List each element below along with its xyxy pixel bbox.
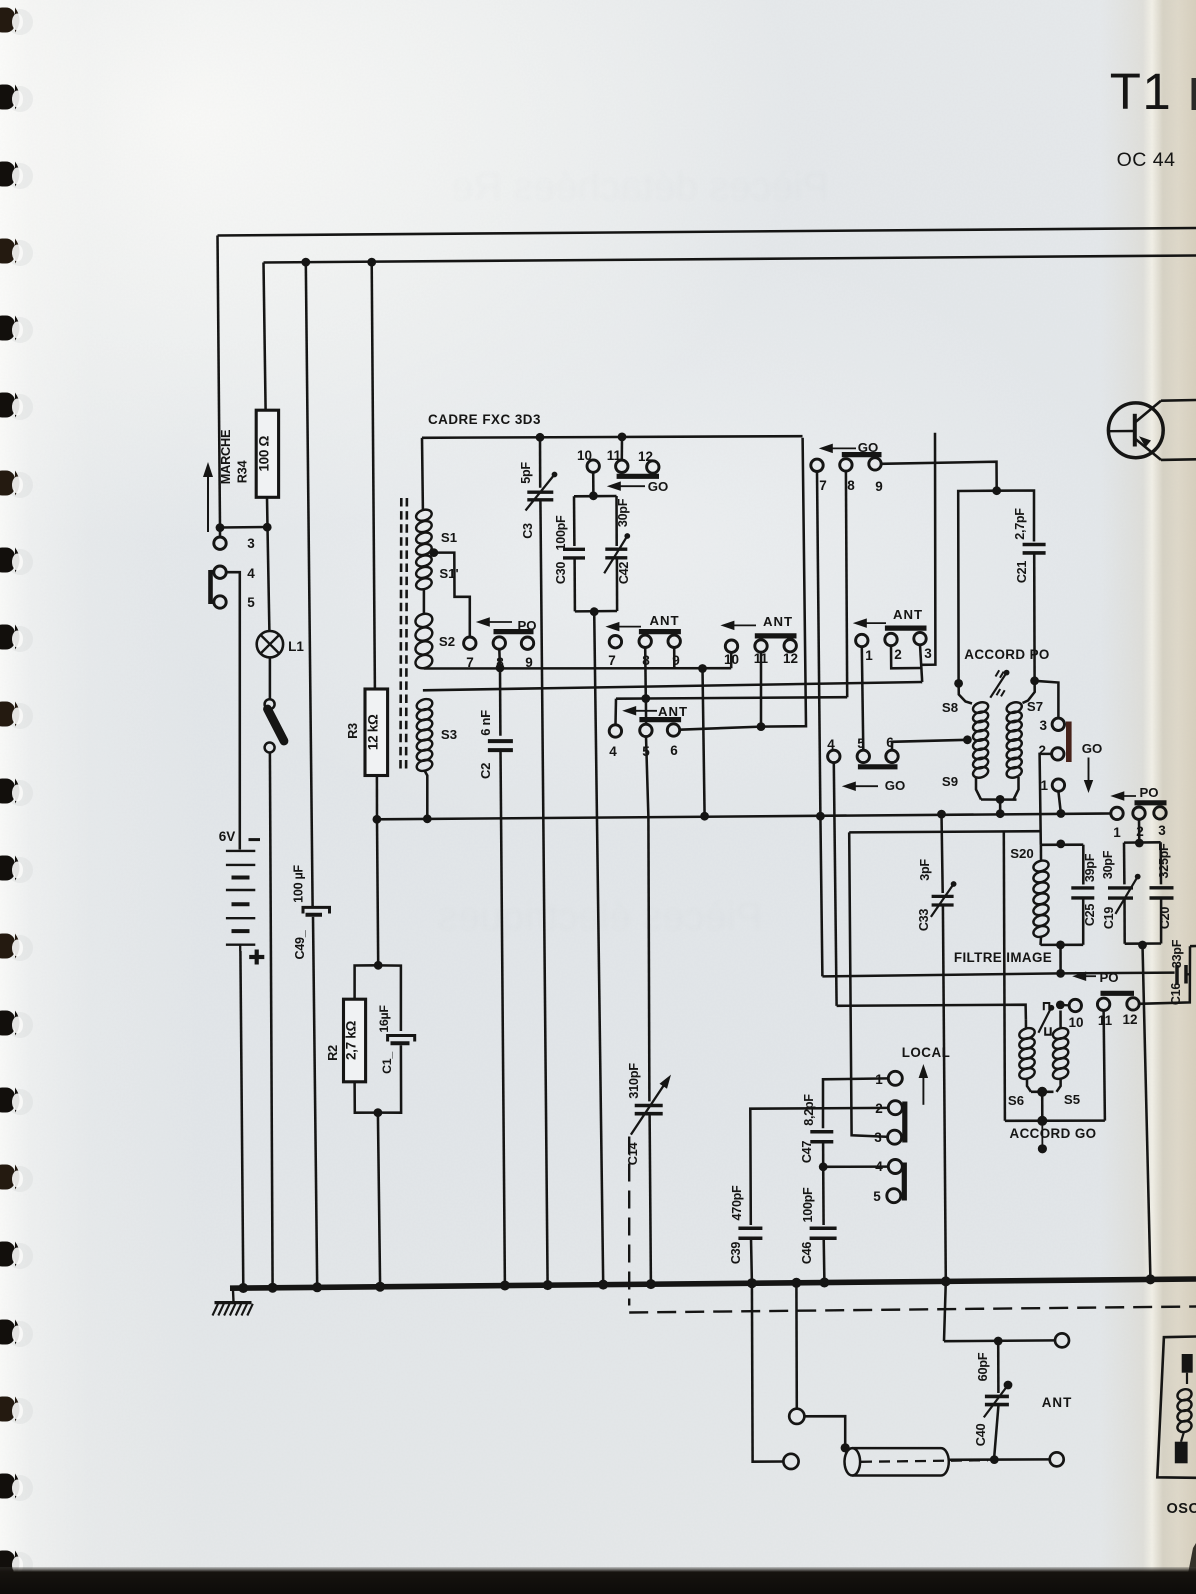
svg-text:9: 9 xyxy=(875,479,883,494)
binding hole xyxy=(7,1012,33,1038)
wire C25 lower xyxy=(1082,898,1085,945)
node filtre rail xyxy=(1056,969,1065,978)
binding hole xyxy=(7,1243,33,1269)
wire bus stub to terminal xyxy=(795,1283,798,1409)
contact 4 jack xyxy=(214,566,226,578)
svg-text:2,7 kΩ: 2,7 kΩ xyxy=(344,1021,359,1061)
svg-text:ANT: ANT xyxy=(649,613,679,628)
wire S3 bottom to rail xyxy=(425,771,428,819)
wire C46 to ground bus xyxy=(822,1238,825,1281)
wire C2 to ground bus xyxy=(501,750,505,1285)
wire to earth terminal xyxy=(753,1458,784,1462)
node ground bus junction xyxy=(312,1282,322,1292)
node accord PO bottom/rail xyxy=(996,809,1005,818)
svg-text:12: 12 xyxy=(1122,1012,1137,1027)
wire T1 emitter out xyxy=(1161,458,1196,461)
wire contact1 to rail xyxy=(1058,791,1061,813)
bar GO 8-9 xyxy=(842,452,882,457)
node ground bus junction xyxy=(747,1278,757,1288)
svg-text:7: 7 xyxy=(608,653,616,668)
svg-text:S1': S1' xyxy=(439,566,458,581)
lamp L1 xyxy=(257,631,283,657)
svg-text:3: 3 xyxy=(874,1130,882,1145)
wire to R2 top xyxy=(355,965,379,999)
svg-text:Pièces détachées Re: Pièces détachées Re xyxy=(451,165,829,209)
wire C30 lower xyxy=(573,558,576,611)
svg-text:33pF: 33pF xyxy=(1170,939,1184,968)
arrow GO3 xyxy=(851,785,878,787)
trimmer arrow C19 xyxy=(1115,877,1137,914)
node 9-10 link xyxy=(698,664,707,673)
wire ant top xyxy=(944,1339,1055,1342)
node coax/C40 xyxy=(990,1455,999,1464)
contact 3 jack xyxy=(214,537,226,549)
node S7 top xyxy=(1030,676,1039,685)
wire bottom bar to box xyxy=(1041,1092,1044,1121)
svg-text:S5: S5 xyxy=(1064,1092,1080,1107)
svg-text:CADRE FXC 3D3: CADRE FXC 3D3 xyxy=(428,412,541,427)
binding hole xyxy=(7,1089,33,1115)
node R2/C1 top xyxy=(374,961,383,970)
wire node to LOCAL4 xyxy=(823,1165,888,1168)
wire S1 tap to contact 7 xyxy=(434,553,470,638)
wire C1 bottom xyxy=(378,1045,401,1113)
node ground bus junction xyxy=(543,1280,553,1290)
wire lamp to switch xyxy=(269,657,272,699)
wire contact9 to PO node xyxy=(881,462,997,491)
arrow ANT xyxy=(614,626,641,628)
bar PO 8-9 xyxy=(494,629,534,634)
svg-text:ACCORD PO: ACCORD PO xyxy=(964,647,1049,662)
wire contact8 down xyxy=(498,649,501,668)
terminal earth top xyxy=(789,1409,804,1424)
svg-text:C1_: C1_ xyxy=(380,1052,394,1074)
wire top supply bus xyxy=(218,228,1196,236)
switch bracket 4-5 xyxy=(208,570,213,604)
svg-text:1: 1 xyxy=(865,648,873,663)
svg-text:ANT: ANT xyxy=(763,614,793,629)
transformer ACCORD GO S6/S5 xyxy=(1025,1020,1028,1029)
svg-text:4: 4 xyxy=(827,737,835,752)
terminal ant top xyxy=(1055,1333,1069,1347)
svg-text:S6: S6 xyxy=(1008,1093,1024,1108)
partial glyph next page edge xyxy=(1192,78,1196,110)
bar ANT 11-12 xyxy=(755,633,797,638)
binding hole xyxy=(7,1321,33,1347)
node ground bus junction xyxy=(1145,1274,1155,1284)
wire coax to terminal xyxy=(948,1458,1050,1461)
svg-text:Pièces électriques: Pièces électriques xyxy=(438,895,763,939)
svg-text:2,7pF: 2,7pF xyxy=(1013,508,1027,540)
svg-text:ANT: ANT xyxy=(658,704,688,719)
svg-text:100 µF: 100 µF xyxy=(292,865,306,903)
wire R2 bottom xyxy=(355,1082,378,1113)
coil OSC xyxy=(1176,1387,1193,1402)
wire left frame vertical xyxy=(218,236,221,528)
node below accord GO xyxy=(1038,1144,1047,1153)
node contact11 top xyxy=(618,433,627,442)
box OSC xyxy=(1157,1337,1196,1478)
contact group ANT 7-8-9 xyxy=(609,636,621,648)
svg-text:1: 1 xyxy=(1040,778,1048,793)
trimmer core accord GO xyxy=(1044,1003,1050,1010)
svg-text:470pF: 470pF xyxy=(730,1185,744,1221)
OSC interior winding symbol xyxy=(1182,1354,1193,1373)
svg-text:12: 12 xyxy=(638,449,653,464)
wire C20 upper xyxy=(1159,842,1162,884)
svg-text:3: 3 xyxy=(924,646,932,661)
svg-text:C40: C40 xyxy=(973,1424,988,1447)
T1 emitter diag xyxy=(1136,439,1162,460)
binding hole xyxy=(7,626,33,652)
trimmer core accord PO xyxy=(990,673,1006,698)
node C2 line on S2 rail xyxy=(496,664,505,673)
wire box top xyxy=(1124,841,1161,844)
contact group GO 10-11-12 xyxy=(587,460,599,472)
trimmer arrow C3 xyxy=(526,475,555,511)
node box bottom xyxy=(1037,1116,1047,1126)
bar GO 11-12 xyxy=(617,474,659,479)
wire C25 upper xyxy=(1082,845,1085,885)
svg-text:R2: R2 xyxy=(325,1045,340,1061)
wire C3 to ground bus xyxy=(540,500,547,1285)
svg-text:11: 11 xyxy=(754,651,769,666)
svg-text:39pF: 39pF xyxy=(1083,853,1097,882)
wire battery to ground bus xyxy=(240,951,243,1288)
trimmer arrow C42 xyxy=(604,536,627,573)
wire node to C21 xyxy=(997,491,1034,542)
wire S2 bottom rail xyxy=(424,667,732,670)
svg-text:7: 7 xyxy=(466,655,474,670)
svg-text:C39: C39 xyxy=(729,1242,743,1264)
coil S1 xyxy=(415,508,433,523)
svg-text:ANT: ANT xyxy=(1042,1395,1073,1410)
svg-text:6V: 6V xyxy=(219,829,236,844)
svg-text:C3: C3 xyxy=(521,523,535,539)
wire T1 collector out xyxy=(1161,399,1196,402)
resistor R34 xyxy=(256,410,278,497)
capacitor C20 325pF xyxy=(1150,886,1174,889)
capacitor C40 60pF variable xyxy=(985,1395,1009,1399)
node S8 top xyxy=(954,679,963,688)
svg-text:9: 9 xyxy=(525,655,533,670)
wire contact7 down to rail xyxy=(817,472,820,817)
wire box bottom xyxy=(575,610,617,613)
wire filtre top xyxy=(849,831,1041,832)
wire contact8 down xyxy=(644,648,647,699)
wire contact6 to S8 tap xyxy=(892,740,967,750)
svg-text:PO: PO xyxy=(1139,785,1158,800)
svg-text:6 nF: 6 nF xyxy=(478,710,493,736)
bar LOCAL 2-3 xyxy=(902,1102,907,1143)
wire PO2 contact2 down xyxy=(1138,819,1141,843)
binding hole xyxy=(7,472,33,498)
contact group GO 4-5-6 xyxy=(828,750,840,762)
svg-text:310pF: 310pF xyxy=(626,1063,641,1099)
svg-text:7: 7 xyxy=(819,478,827,493)
svg-text:C2: C2 xyxy=(478,763,493,779)
svg-text:C33: C33 xyxy=(917,909,931,931)
wire to S6 top xyxy=(837,1005,1026,1020)
wire S6/S5 bottom bar xyxy=(1031,1091,1054,1094)
svg-text:12: 12 xyxy=(783,651,798,666)
node ground bus junction xyxy=(268,1283,278,1293)
wire node to C46 xyxy=(822,1167,825,1225)
svg-text:4: 4 xyxy=(609,744,617,759)
wire second supply bus xyxy=(264,256,1196,263)
binding hole xyxy=(7,703,33,729)
svg-text:S9: S9 xyxy=(942,774,958,789)
wire rail down to C33 xyxy=(942,814,943,893)
binding hole xyxy=(7,9,33,35)
capacitor C39 470pF xyxy=(738,1227,762,1231)
svg-text:C25: C25 xyxy=(1083,904,1097,926)
wire S3 top long rail xyxy=(423,682,922,690)
dark page-edge sliver bottom right xyxy=(1184,1543,1196,1594)
svg-text:ANT: ANT xyxy=(893,607,923,622)
node junction lamp branch xyxy=(263,523,272,532)
node junction C49 drop xyxy=(301,258,310,267)
terminal ant bottom xyxy=(1050,1452,1064,1466)
node ground bus junction xyxy=(791,1278,801,1288)
wire contact3 down to rail end xyxy=(920,645,922,682)
node C40 top xyxy=(994,1337,1003,1346)
wire long return rail xyxy=(377,814,1111,820)
capacitor C42 30pF variable xyxy=(605,548,627,551)
node C47/C46 xyxy=(819,1162,828,1171)
arrow PO2 xyxy=(1081,975,1096,977)
coil S6 winding xyxy=(1018,1026,1036,1041)
wire LOCAL1 to C47 xyxy=(823,1078,888,1128)
trimmer arrow C14 xyxy=(631,1082,666,1135)
svg-text:OC 44: OC 44 xyxy=(1117,149,1176,171)
coax cable symbol xyxy=(845,1448,861,1475)
wire switch to ground bus xyxy=(270,753,273,1288)
wire C19 upper xyxy=(1123,843,1126,885)
wire contact9 down xyxy=(673,648,676,669)
wire down to filtre rail xyxy=(820,816,822,976)
wire contact11 up to cadre xyxy=(621,437,624,460)
wire C39 line below bus xyxy=(751,1283,754,1458)
svg-text:2: 2 xyxy=(894,647,902,662)
wire C49 to ground bus xyxy=(313,917,317,1287)
node S5 top xyxy=(1056,1001,1065,1010)
svg-text:S1: S1 xyxy=(441,530,457,545)
wire down to contact4 xyxy=(614,699,617,725)
svg-text:100pF: 100pF xyxy=(801,1187,815,1223)
svg-text:10: 10 xyxy=(1068,1015,1083,1030)
wire C3 top xyxy=(539,437,542,487)
bar PO 11-12 xyxy=(1101,991,1135,996)
wire down to contact5 xyxy=(645,699,648,725)
resistor R3 xyxy=(365,689,388,776)
wire contact1 down to GO5 xyxy=(862,647,864,751)
node ground bus junction xyxy=(500,1281,510,1291)
svg-text:C49_: C49_ xyxy=(293,929,307,959)
wire filtre box left xyxy=(1004,831,1005,1121)
node coax shield xyxy=(841,1443,850,1452)
svg-text:T1: T1 xyxy=(1110,63,1173,120)
capacitor C33 3pF xyxy=(932,895,954,898)
node R2/C1 bottom xyxy=(374,1108,383,1117)
svg-text:L1: L1 xyxy=(288,639,304,654)
svg-text:3: 3 xyxy=(247,536,255,551)
svg-text:C30: C30 xyxy=(554,562,568,584)
wire contact10 down xyxy=(592,472,595,496)
wire to C2 xyxy=(499,668,502,736)
node R3/rail xyxy=(373,815,382,824)
terminal earth bottom xyxy=(783,1454,798,1469)
wire R3 to rail xyxy=(376,776,379,820)
node S8 tap xyxy=(963,735,972,744)
wire filtre rail A xyxy=(822,973,1060,976)
binding hole xyxy=(7,1166,33,1192)
wire S20 to filtre rail xyxy=(1059,945,1062,974)
svg-text:S2: S2 xyxy=(439,634,455,649)
node box top xyxy=(1135,839,1144,848)
svg-text:6: 6 xyxy=(670,743,678,758)
node PO1 drop/rail xyxy=(1057,809,1066,818)
wire to C40 xyxy=(997,1341,1000,1393)
binding hole xyxy=(7,549,33,575)
trimmer arrow C33 xyxy=(931,884,954,917)
node S1 tap xyxy=(429,548,438,557)
node ground bus junction xyxy=(819,1278,829,1288)
capacitor C1 16uF xyxy=(388,1036,415,1042)
wire left to contact4 xyxy=(616,697,646,700)
arrow ANT2 xyxy=(631,710,657,712)
svg-text:R3: R3 xyxy=(345,723,360,739)
svg-text:30pF: 30pF xyxy=(1101,850,1115,879)
node ground bus junction xyxy=(375,1282,385,1292)
node on rail xyxy=(700,812,709,821)
wire transformer bottom bar xyxy=(981,798,1017,801)
wire LOCAL2 to C39 xyxy=(750,1108,888,1225)
node rail/filtre drop xyxy=(816,812,825,821)
arrow ANT3 xyxy=(729,624,756,626)
arrow ANT4 xyxy=(862,622,886,624)
bar ANT 5-6 xyxy=(639,717,681,722)
svg-text:C21: C21 xyxy=(1015,561,1029,583)
coil S8 winding xyxy=(972,700,990,714)
wire contact11 down xyxy=(1104,1011,1105,1121)
svg-text:C47: C47 xyxy=(800,1141,814,1163)
svg-text:325pF: 325pF xyxy=(1157,843,1171,879)
coil S2 xyxy=(414,612,434,629)
svg-text:C42: C42 xyxy=(617,562,631,584)
wire ground bus thick xyxy=(230,1279,1196,1288)
capacitor C16 33pF xyxy=(1175,965,1179,984)
wire down to ground bus xyxy=(378,1113,380,1287)
wire C40 down xyxy=(994,1405,998,1456)
binding hole xyxy=(7,394,33,420)
svg-text:10: 10 xyxy=(724,652,739,667)
battery plus sign xyxy=(249,955,264,959)
dashed chassis line vertical xyxy=(628,1137,630,1306)
wire to lamp L1 xyxy=(268,527,270,631)
wire contact3 up xyxy=(219,528,222,537)
node S8 bracket/rail xyxy=(937,810,946,819)
bar LOCAL 4-5 xyxy=(902,1163,907,1201)
node S20 bottom xyxy=(1056,941,1065,950)
ground symbol xyxy=(232,1291,235,1302)
T1 base bar xyxy=(1133,414,1137,447)
transformer core dashed xyxy=(399,498,402,770)
arrow MARCHE direction xyxy=(207,474,209,532)
svg-text:5: 5 xyxy=(857,736,865,751)
wire bus2 down to C49 xyxy=(306,262,313,906)
contact group LOCAL 1-5 xyxy=(888,1071,902,1085)
svg-text:R34: R34 xyxy=(235,460,250,484)
svg-text:C46: C46 xyxy=(800,1242,814,1264)
arrow GO xyxy=(616,485,645,487)
wire T1 base lead xyxy=(1109,430,1133,433)
wire down to LOCAL 3 xyxy=(849,832,889,1137)
svg-text:S20: S20 xyxy=(1010,846,1033,861)
wire C42 upper xyxy=(615,496,618,546)
contact 5 jack xyxy=(214,596,226,608)
wire S20 box top xyxy=(1041,843,1084,846)
svg-text:11: 11 xyxy=(1098,1013,1113,1028)
capacitor C47 8.2pF xyxy=(810,1130,833,1134)
bar GO 5-6 xyxy=(858,764,898,769)
bar ANT 2-3 xyxy=(885,625,927,630)
wire to C1 top xyxy=(378,965,401,1031)
svg-text:4: 4 xyxy=(247,566,255,581)
wire up to ANT contact 11 xyxy=(760,652,763,726)
svg-text:GO: GO xyxy=(885,778,906,793)
contact group PO rail 1-2-3 xyxy=(1111,807,1123,819)
binding hole xyxy=(7,317,33,343)
wire C39 to ground bus xyxy=(750,1238,753,1282)
wire down to C14 xyxy=(648,817,649,1101)
svg-text:3: 3 xyxy=(1158,823,1166,838)
svg-text:MARCHE: MARCHE xyxy=(218,429,233,484)
wire box top xyxy=(574,495,617,498)
svg-text:10: 10 xyxy=(577,448,592,463)
node junction frame/jumper xyxy=(216,523,225,532)
resistor R2 xyxy=(344,999,366,1082)
svg-text:S3: S3 xyxy=(441,727,457,742)
svg-text:PO: PO xyxy=(517,618,536,633)
node junction R3 drop xyxy=(367,258,376,267)
wire jumper to lamp branch xyxy=(220,526,267,529)
svg-text:GO: GO xyxy=(648,479,669,494)
wire off page xyxy=(1190,945,1196,948)
svg-text:30pF: 30pF xyxy=(616,498,630,527)
wire box bottom to ground bus xyxy=(594,612,603,1285)
wire cadre top edge xyxy=(422,436,803,438)
wire right to GO8 branch xyxy=(646,697,847,698)
switch S (interrupteur) xyxy=(265,699,275,709)
wire S20 box bottom xyxy=(1041,944,1084,947)
svg-text:C14: C14 xyxy=(625,1142,640,1166)
wire bottom to rail xyxy=(999,799,1002,813)
contact group PO 7-8-9 xyxy=(464,637,476,649)
node box bottom xyxy=(590,607,599,616)
node C30/C42 top xyxy=(589,491,598,500)
node accord PO top xyxy=(992,486,1001,495)
wire R34 to jumper xyxy=(266,497,269,527)
svg-text:3: 3 xyxy=(1039,718,1047,733)
capacitor C25 39pF xyxy=(1071,886,1094,889)
bar PO 2-3 xyxy=(1135,800,1167,805)
binding hole xyxy=(7,86,33,112)
wire S7 top to contact3 xyxy=(1035,681,1059,718)
contact group ANT 10-11-12 xyxy=(725,640,737,652)
node ant8 xyxy=(641,694,650,703)
wire node down to rail xyxy=(703,669,705,817)
